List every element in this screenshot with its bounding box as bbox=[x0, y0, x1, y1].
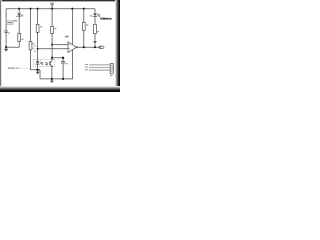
node M3 right bbox=[62, 57, 64, 59]
value label R6 bbox=[97, 31, 99, 32]
label under J2 bbox=[110, 75, 113, 76]
wire C2 lower bbox=[62, 63, 64, 79]
optocoupler dashed box bbox=[34, 59, 55, 66]
wire chain E lower bbox=[94, 34, 96, 42]
op-amp U1 bbox=[68, 42, 77, 53]
node output pullup bbox=[83, 46, 85, 48]
value label R5 bbox=[86, 24, 88, 25]
wire chain A lower bbox=[18, 41, 20, 47]
value label C2 bbox=[66, 63, 68, 64]
pin marks U1 bbox=[69, 44, 70, 46]
wire Q1 emitter down bbox=[51, 66, 53, 79]
value label D1 bbox=[14, 20, 18, 21]
value label D1 top bbox=[18, 11, 21, 14]
ref label U1 bbox=[65, 36, 69, 38]
ground GND3 bbox=[51, 79, 53, 81]
diode D4 arrow bbox=[93, 41, 97, 44]
value label R1 bbox=[21, 39, 23, 40]
transistor Q1 phototransistor bbox=[51, 58, 53, 61]
value label near LED1 bbox=[90, 15, 92, 17]
wire chain C mid bbox=[37, 32, 39, 61]
LED D3 reference bbox=[93, 14, 97, 16]
wire chain B lower bbox=[31, 50, 41, 70]
wire chain E from rail bbox=[94, 9, 96, 14]
border right shadow bbox=[115, 0, 120, 92]
value label R3 bbox=[40, 26, 42, 27]
node minus input bbox=[51, 44, 53, 46]
wire chain C lower bbox=[37, 64, 39, 70]
resistor R2 bbox=[29, 41, 32, 50]
value label D1b bbox=[22, 14, 23, 16]
ground GND1 bbox=[5, 47, 7, 49]
LED D3 light arrows bbox=[97, 14, 99, 15]
node bus transistor bbox=[51, 78, 53, 80]
resistor R4 bbox=[51, 26, 54, 33]
wire to op-amp input plus bbox=[38, 48, 68, 50]
wire chain E mid bbox=[94, 16, 96, 24]
connector J2 box bbox=[110, 64, 113, 74]
cable wire labels bbox=[85, 64, 88, 65]
wire chain ref mid bbox=[51, 34, 53, 45]
wire chain ref lower bbox=[51, 45, 53, 58]
node B top bbox=[29, 8, 31, 10]
wire chain A upper bbox=[18, 9, 20, 14]
cable wires right bbox=[89, 64, 110, 66]
node D top bbox=[83, 8, 85, 10]
ground GND2 bbox=[37, 71, 39, 72]
node A top bbox=[18, 8, 20, 10]
callout label bottom left bbox=[8, 68, 15, 69]
wire ground to chain A bbox=[6, 46, 19, 48]
zener diode D1 bbox=[17, 14, 21, 16]
wire chain C upper bbox=[37, 9, 39, 25]
wire output bbox=[78, 46, 99, 48]
capacitor C2 bbox=[62, 58, 64, 61]
resistor R3 bbox=[36, 24, 39, 32]
node power bbox=[51, 8, 53, 10]
border left bbox=[0, 0, 1, 92]
connector J1 bbox=[99, 46, 104, 49]
value label R4 bbox=[54, 28, 56, 29]
node ground mid bbox=[37, 69, 39, 71]
wire left rail upper bbox=[5, 9, 7, 31]
LED D2 light arrows bbox=[40, 62, 43, 64]
value label C1 bbox=[8, 33, 10, 34]
wire to op-amp input minus bbox=[52, 44, 68, 46]
wire drop to bottom bus bbox=[39, 70, 41, 79]
border top bbox=[0, 0, 120, 1]
node M3 left bbox=[51, 57, 53, 59]
wire vplus pin bbox=[71, 9, 73, 45]
wire chain D upper bbox=[83, 9, 85, 23]
border bottom shadow bbox=[0, 86, 120, 92]
callout dashed leader bbox=[20, 67, 30, 69]
wire M3 bbox=[52, 57, 63, 59]
resistor R5 bbox=[82, 22, 85, 30]
node C top bbox=[37, 8, 39, 10]
resistor R6 bbox=[94, 24, 97, 33]
resistor R1 bbox=[18, 33, 21, 41]
transistor Q1 light arrows bbox=[45, 62, 48, 64]
node output LED chain bbox=[94, 46, 96, 48]
label box Post filter bbox=[6, 21, 13, 24]
wire top rail bbox=[6, 8, 95, 10]
capacitor C1 bbox=[4, 30, 8, 32]
net label marks bbox=[34, 45, 36, 46]
power 5V bbox=[50, 3, 51, 5]
node bus capacitor bbox=[62, 78, 64, 80]
wire bottom bus bbox=[40, 50, 73, 79]
wire chain A mid bbox=[18, 16, 20, 33]
svg-text:Reference: Reference bbox=[100, 16, 112, 20]
value label R2 bbox=[33, 43, 35, 44]
node vplus bbox=[71, 8, 73, 10]
wire left rail lower bbox=[5, 32, 7, 47]
node C noninverting junction bbox=[37, 48, 39, 50]
LED D2 bbox=[36, 61, 40, 64]
wire chain B upper bbox=[30, 9, 32, 42]
wire chain D lower bbox=[83, 30, 85, 47]
wire chain ref upper bbox=[51, 9, 53, 27]
node ground left junction bbox=[5, 46, 7, 48]
